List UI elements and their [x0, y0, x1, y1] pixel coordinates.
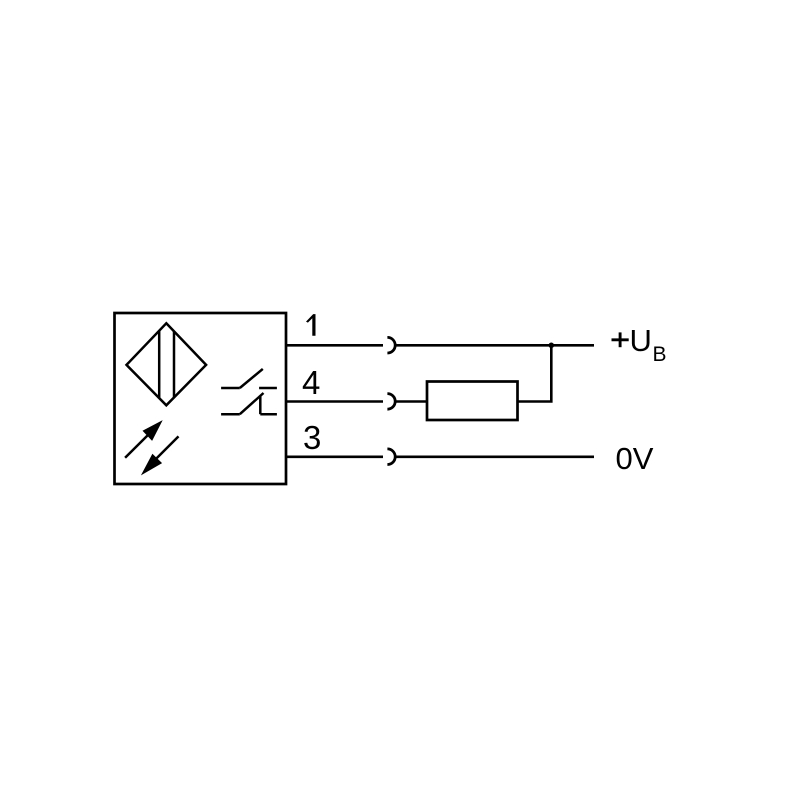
- wire pin 3 from connector to 0V: [395, 455, 594, 458]
- connector plug pin 3: [387, 449, 395, 465]
- pin 1 label: [306, 314, 316, 336]
- sensor symbol diamond: [127, 323, 207, 405]
- wire pin 4 from connector to load: [395, 400, 427, 403]
- diamond inner line right: [173, 331, 176, 397]
- junction dot node A: [549, 343, 555, 349]
- light arrow down-left: [141, 436, 179, 475]
- svg-text:B: B: [653, 343, 667, 366]
- svg-text:4: 4: [302, 364, 320, 401]
- light arrow up-right: [125, 420, 163, 458]
- wire load to +UB line (right side, up to junction): [518, 345, 552, 401]
- switch NC contact (output symbol bottom): [221, 393, 277, 414]
- connector plug pin 1: [387, 337, 395, 353]
- connector plug pin 4: [387, 394, 395, 410]
- load resistor RL: [427, 382, 518, 421]
- sensor box U1: [115, 313, 287, 484]
- wire pin 3 from box to connector: [286, 455, 383, 458]
- svg-text:3: 3: [303, 419, 321, 456]
- svg-text:0V: 0V: [616, 441, 654, 476]
- svg-text:U: U: [630, 323, 652, 358]
- wire pin 4 from box to connector: [286, 400, 383, 403]
- wire pin 1 from box to connector: [286, 344, 383, 347]
- wire pin 1 from connector to +UB: [395, 344, 594, 347]
- diamond inner line left: [158, 331, 161, 398]
- label +UB net: [612, 323, 667, 366]
- switch NO contact (output symbol top): [221, 369, 277, 388]
